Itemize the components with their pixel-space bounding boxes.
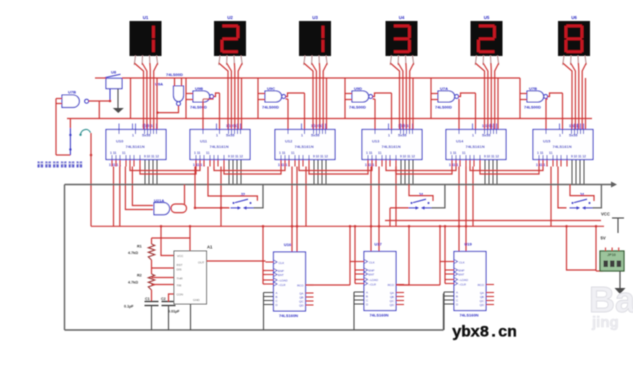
svg-text:1 11 1 1: 1 11 1 1 [193, 163, 205, 167]
svg-text:11: 11 [291, 151, 295, 155]
svg-text:1 11: 1 11 [110, 151, 117, 155]
svg-text:U15: U15 [543, 139, 551, 144]
svg-text:U6: U6 [571, 15, 577, 20]
svg-text:1: 1 [559, 134, 561, 138]
svg-text:QD: QD [299, 303, 303, 307]
svg-text:R2: R2 [137, 274, 142, 278]
svg-text:9 10 11 12: 9 10 11 12 [484, 155, 499, 159]
svg-text:4.7kΩ: 4.7kΩ [128, 251, 138, 255]
svg-text:1 11: 1 11 [194, 151, 201, 155]
svg-text:74LS00D: 74LS00D [435, 105, 452, 110]
svg-text:VCC: VCC [177, 254, 184, 258]
svg-text:74LS00D: 74LS00D [262, 105, 279, 110]
svg-text:74LS00D: 74LS00D [524, 105, 541, 110]
svg-text:U3: U3 [312, 15, 318, 20]
svg-text:~CLR: ~CLR [459, 282, 466, 286]
svg-text:1: 1 [301, 134, 303, 138]
svg-text:U12: U12 [285, 139, 293, 144]
svg-text:74LS161N: 74LS161N [126, 144, 145, 149]
svg-text:C2: C2 [161, 297, 166, 301]
svg-text:U9D: U9D [354, 86, 362, 91]
svg-text:U9C: U9C [267, 86, 275, 91]
svg-text:74LS00D: 74LS00D [166, 72, 183, 77]
svg-text:RST: RST [177, 263, 183, 267]
svg-text:QD: QD [390, 303, 394, 307]
svg-text:1 11 1 1: 1 11 1 1 [449, 163, 461, 167]
svg-text:11: 11 [378, 151, 382, 155]
svg-text:U7B: U7B [68, 90, 76, 95]
svg-text:9 10 11 12: 9 10 11 12 [144, 155, 159, 159]
svg-text:U21A: U21A [154, 198, 164, 203]
svg-text:U2: U2 [227, 15, 233, 20]
svg-text:1: 1 [388, 134, 390, 138]
svg-text:A1: A1 [207, 245, 213, 250]
svg-text:1: 1 [472, 134, 474, 138]
svg-text:9 10 11 12: 9 10 11 12 [313, 155, 328, 159]
svg-text:TRI: TRI [177, 284, 182, 288]
svg-text:1 11: 1 11 [279, 151, 286, 155]
svg-text:U9A: U9A [155, 82, 163, 87]
svg-text:1 11 1 1: 1 11 1 1 [536, 163, 548, 167]
svg-text:U17: U17 [374, 242, 382, 247]
svg-text:VCC: VCC [601, 212, 610, 217]
svg-text:U7A: U7A [440, 86, 448, 91]
svg-text:D: D [456, 302, 458, 306]
svg-text:U16: U16 [284, 242, 292, 247]
svg-text:74LS160N: 74LS160N [369, 313, 388, 318]
svg-text:jing: jing [591, 314, 619, 331]
svg-text:1 11 1 1: 1 11 1 1 [365, 163, 377, 167]
svg-text:QD: QD [480, 303, 484, 307]
svg-text:9 10 11 12: 9 10 11 12 [571, 155, 586, 159]
svg-text:74LS160N: 74LS160N [459, 313, 478, 318]
svg-text:ENT: ENT [459, 273, 465, 277]
svg-text:RCO: RCO [297, 283, 304, 287]
svg-text:1 11: 1 11 [450, 151, 457, 155]
svg-text:5x55: 5x55 [142, 134, 150, 138]
svg-text:U8: U8 [111, 70, 117, 75]
svg-text:ENT: ENT [278, 273, 284, 277]
svg-text:D: D [366, 302, 368, 306]
svg-text:0.01µF: 0.01µF [168, 310, 180, 314]
svg-text:~CLR: ~CLR [278, 283, 285, 287]
svg-text:5x55: 5x55 [226, 134, 234, 138]
svg-text:CLK: CLK [459, 260, 465, 264]
svg-text:RCO: RCO [388, 283, 395, 287]
svg-text:1 11: 1 11 [366, 151, 373, 155]
svg-text:U13: U13 [372, 139, 380, 144]
svg-text:0.1µF: 0.1µF [124, 305, 134, 309]
svg-text:U5: U5 [484, 15, 490, 20]
svg-text:74LS161N: 74LS161N [295, 144, 314, 149]
svg-text:C1: C1 [145, 297, 150, 301]
svg-text:74LS00D: 74LS00D [349, 105, 366, 110]
svg-text:74LS161N: 74LS161N [210, 144, 229, 149]
svg-text:11: 11 [206, 151, 210, 155]
svg-text:5x55: 5x55 [311, 134, 319, 138]
svg-text:U7B: U7B [529, 86, 537, 91]
svg-text:4.7kΩ: 4.7kΩ [128, 281, 138, 285]
svg-text:U1: U1 [143, 15, 149, 20]
svg-text:JP10: JP10 [607, 253, 615, 257]
svg-text:THR: THR [177, 277, 184, 281]
svg-text:CLK: CLK [369, 260, 375, 264]
svg-text:R1: R1 [137, 245, 142, 249]
svg-text:74LS161N: 74LS161N [553, 144, 572, 149]
svg-text:1 11 1 1: 1 11 1 1 [278, 163, 290, 167]
svg-text:DIS: DIS [177, 268, 182, 272]
svg-text:9 10 11 12: 9 10 11 12 [228, 155, 243, 159]
svg-text:5x55: 5x55 [482, 134, 490, 138]
svg-text:1: 1 [216, 134, 218, 138]
svg-text:U4: U4 [399, 15, 405, 20]
svg-text:RCO: RCO [478, 283, 485, 287]
svg-text:1 11 1 1: 1 11 1 1 [109, 163, 121, 167]
svg-text:74LS00D: 74LS00D [190, 105, 207, 110]
svg-text:U10: U10 [116, 139, 124, 144]
svg-text:ybx8.cn: ybx8.cn [452, 324, 516, 342]
svg-text:U14: U14 [456, 139, 464, 144]
svg-text:74LS160N: 74LS160N [279, 313, 298, 318]
svg-text:1: 1 [132, 134, 134, 138]
svg-text:1 1011: 1 1011 [569, 124, 580, 128]
svg-text:11: 11 [462, 151, 466, 155]
svg-text:1 11: 1 11 [537, 151, 544, 155]
svg-text:9 10 11 12: 9 10 11 12 [400, 155, 415, 159]
svg-text:11: 11 [549, 151, 553, 155]
svg-text:OUT: OUT [198, 261, 205, 265]
svg-text:74LS161N: 74LS161N [382, 144, 401, 149]
svg-text:GND: GND [193, 298, 201, 302]
svg-text:D: D [276, 303, 278, 307]
svg-text:11: 11 [122, 151, 126, 155]
svg-text:5x55: 5x55 [398, 134, 406, 138]
svg-text:74LS161N: 74LS161N [466, 144, 485, 149]
svg-text:U9B: U9B [195, 86, 203, 91]
svg-text:5V: 5V [601, 235, 606, 240]
svg-text:U19: U19 [464, 242, 472, 247]
svg-text:CLK: CLK [279, 261, 285, 265]
svg-text:5x55: 5x55 [569, 134, 577, 138]
svg-text:U11: U11 [200, 139, 208, 144]
svg-text:ENT: ENT [369, 273, 375, 277]
svg-text:CON: CON [177, 293, 184, 297]
svg-text:~CLR: ~CLR [369, 282, 376, 286]
